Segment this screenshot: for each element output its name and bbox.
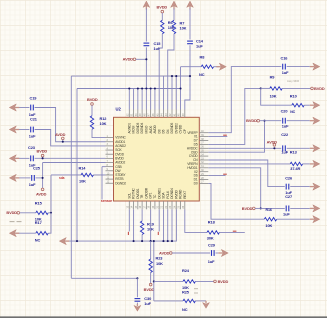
wire top pin 2 to bus2 [133,89,135,110]
wire R24 to BVDD port [195,280,213,282]
svg-text:10K: 10K [79,178,86,183]
wire C19 left lead [16,107,29,109]
wire DGND1 down [158,209,160,231]
power port AVDD (below C25) [36,188,47,196]
wire to R25 [154,300,183,302]
wire AVDD to C29 [172,252,210,254]
wire AVDD stub [136,58,147,60]
resistor R8 [201,65,213,68]
wire C23 right lead to BVDD pin [35,157,106,159]
gray marks near R25 [194,289,198,293]
junction bottom pin 9/bus [162,240,164,242]
off-page connector (right) R18 [310,216,320,223]
wire R10 to arrow [304,104,310,106]
junction bus2 [141,87,143,89]
wire arrow to C14 [189,9,191,40]
resistor 30K [207,231,219,234]
wire R8 vertical to pin CVDD [180,67,182,110]
power port AVDD (C29) [159,251,172,256]
wire SCL down [128,209,130,231]
off-page connector (right) C29 [218,249,228,256]
svg-text:1uF: 1uF [196,43,203,48]
off-page connector (right) C27 [310,205,320,212]
capacitor C29 [212,250,215,256]
resistor R9 [270,87,282,90]
wire BVDD to R6 [161,13,163,20]
wire R25 to ground [195,300,206,302]
wire bus down to R24/R25 chain [153,241,155,301]
wire CSB stub [102,166,106,168]
wire C30 row [71,277,137,279]
svg-text:10K: 10K [100,121,107,126]
wire to R9 [261,87,270,89]
capacitor C14 [187,41,193,44]
wire R15 to node [48,212,51,214]
svg-text:1uF: 1uF [144,301,151,306]
svg-text:R23: R23 [156,256,164,261]
power port AVDD (C15 chain) [123,57,136,62]
junction GP1/bus [150,240,152,242]
wire X1 stub [208,136,227,138]
junction C30 [136,277,138,279]
svg-text:R18: R18 [208,220,216,225]
wire BVDD to C20 [260,120,282,122]
wire R9 to BVDD port [282,87,311,89]
capacitor C19 [31,105,34,111]
wire BVDD to R15 [20,212,36,214]
wire REXT down to 30K row [185,209,207,232]
svg-text:BVDD: BVDD [218,279,229,284]
wire top pin 9 to bus1 [162,76,164,109]
wire CSB down to sensor [101,167,103,200]
power port BVDD (R12) [87,97,98,105]
junction R19/bus [141,240,143,242]
svg-text:R16: R16 [266,208,272,212]
wire C21 right lead to AGND2 pin [35,130,106,146]
junction bus2 [150,87,152,89]
svg-text:AVDD: AVDD [36,191,47,196]
power port BVDD (R24) [214,279,229,284]
no-connect tick D6 [223,173,227,175]
junction C27/BVDD [260,207,262,209]
off-page connector (left) C19 [9,104,19,111]
wire C22 to arrow [287,147,310,149]
wire C19 right lead to AVDD1 pin [35,108,106,142]
power port BVDD (R15) [6,210,19,215]
junction bottom pin 11/bus [171,240,173,242]
wire top pin 12 to bus1 [175,76,177,109]
off-page connector (right) C16 [310,63,320,70]
resistor R23 [149,259,152,273]
wire bottom pin 10 to bus [167,209,169,241]
svg-text:R13: R13 [290,150,298,155]
capacitor C22 [283,145,286,151]
wire C15 to MISO pin [145,47,147,109]
off-page connector (right) C20 [310,117,320,124]
svg-text:R17: R17 [35,220,42,225]
window bottom border [0,316,327,318]
resistor R17 [36,232,48,235]
junction C20/BVDD [263,120,265,122]
wire D0 down to R18 row [208,183,264,219]
svg-text:BVDD: BVDD [242,206,253,211]
junction R8/bus2 [179,87,181,89]
svg-text:C16: C16 [281,56,289,61]
no-connect tick SCL [127,232,129,235]
wire R14 to STDBY pin [93,174,105,176]
wire to R24 [154,280,183,282]
wire top pin 7 to bus2 [154,89,156,110]
svg-text:sda: sda [59,176,65,180]
junction R9/R10 [260,87,262,89]
junction R15/R17 node [50,212,52,214]
IC pin names bottom (rotated) [127,187,187,199]
IC pin stubs left [106,138,114,184]
junction AVDD/C15 [145,58,147,60]
resistor R19 [140,221,143,235]
junction C22/AVDD [273,147,275,149]
IC pin names right [187,131,199,186]
off-page connector (left) bottom bus [59,238,69,245]
no-connect tick 30K row [233,230,237,232]
wire R7 down to pin D4 [168,34,174,110]
svg-text:R15: R15 [35,200,43,205]
wire HVDD1 down to C27 row [208,168,260,209]
ground (C30) [134,304,141,311]
wire arrow to C15 [145,9,147,42]
wire D5 up to R9 row [208,88,260,144]
IC pin numbers bottom (rotated) [126,205,185,208]
svg-text:BVDD: BVDD [156,5,167,10]
junction bus2 [128,87,130,89]
no-connect tick DGND1 [157,232,159,235]
wire bus1 horizontal y=76 [71,75,190,77]
svg-text:R24: R24 [182,268,190,273]
power port AVDD (C22) [267,139,278,146]
svg-text:AVDD: AVDD [159,251,170,256]
IC pin numbers right [201,130,204,184]
svg-text:10K: 10K [265,223,272,228]
svg-text:30K: 30K [207,236,214,241]
svg-text:1uF: 1uF [281,149,288,154]
off-page connector (left) R17 NC [9,230,19,237]
wire BVDD to junction [255,207,261,209]
capacitor C23 [31,155,34,161]
power port BVDD (C27) [242,206,255,211]
wire bus1 vertical x=71.3 [70,76,72,278]
wire top pin 1 to bus2 [128,89,130,110]
svg-text:1uF: 1uF [154,46,161,51]
wire VREFP to C16 [208,67,281,133]
resistor R7 [172,20,175,34]
svg-text:AVDD: AVDD [123,57,134,62]
wire R17 to NC arrow [16,232,36,234]
wire C26 to arrow [290,186,310,188]
wire C30 to ground [136,303,138,306]
svg-text:sensor: sensor [101,199,113,203]
resistor R14 [81,173,93,176]
resistor R6 [161,20,164,34]
wire R8 to arrow [214,66,220,68]
wire C14 down to pin CP [185,45,190,109]
svg-text:C29: C29 [208,242,216,247]
wire R6 to pin D8 [159,34,162,110]
resistor R24 [183,280,195,283]
svg-text:10K: 10K [156,261,163,266]
svg-text:1uF: 1uF [208,259,215,264]
wire BVDD to R12 [91,105,93,116]
IC pin stubs right [199,133,208,184]
off-page connector (right) R10 [310,102,320,109]
wire bottom pin 11 to bus [171,209,173,241]
junction C25 node [42,177,44,179]
svg-text:C20: C20 [281,108,288,113]
op-amp U2 body (main IC) [114,117,200,201]
wire C29 to arrow [216,252,219,254]
svg-text:C27: C27 [285,194,292,199]
off-page connector (right) 37.4R [310,160,320,167]
power arrow (up) C15 chain [143,1,150,10]
IC pin numbers top (rotated) [126,113,185,116]
junction chain/bus [153,240,155,242]
wire C27 to arrow [290,207,310,209]
junction AVDD1 node [62,141,64,143]
svg-text:BVDD: BVDD [36,149,47,154]
IC pin stubs top [129,110,185,118]
IC pin names top (rotated) [127,123,187,134]
wire top pin 3 to bus2 [137,89,139,110]
wire junction to C27 [261,207,285,209]
wire R18 to arrow [277,218,310,220]
svg-text:1uF: 1uF [29,182,36,187]
junction R24 node [153,280,155,282]
off-page connector (right) C26 [310,183,320,190]
wire C25 left lead [16,177,30,179]
wire node down to R17 [48,213,51,233]
ground (R25) [203,301,210,308]
svg-text:1uF: 1uF [282,124,289,129]
resistor R18 10K [264,218,276,221]
capacitor C15 [143,43,149,46]
capacitor C20 [283,118,286,124]
wire R23 to BVDD port [150,273,152,284]
wire D6 stub [208,175,225,177]
wire VREFN to series resistor [208,163,290,165]
svg-text:1uF: 1uF [283,211,290,216]
power port BVDD (C23) [36,149,47,157]
wire bus down to R23 [150,241,152,259]
wire bus2 vertical x=77 [76,89,78,242]
svg-text:AVDD: AVDD [55,132,66,137]
power port BVDD (R9) [311,86,325,91]
wire bottom bus to RGND pin [66,209,176,241]
power port BVDD (R6) [156,5,167,13]
svg-text:BVDD: BVDD [246,118,257,123]
wire 37.4R to arrow [303,163,310,165]
wire C25 right lead [36,177,43,179]
off-page connector (left) C25 [9,174,19,181]
wire 30K row end [219,231,244,233]
junction bus1 [175,75,177,77]
wire bus2 horizontal y=88.5 [77,88,181,90]
capacitor C26 [286,184,289,190]
off-page connector (right) C22 [310,145,320,152]
wire vertical R14 to R15 node [50,175,52,213]
svg-text:BVDD: BVDD [314,86,325,91]
svg-text:BVDD: BVDD [6,210,17,215]
svg-text:REXT: REXT [183,191,187,199]
wire R19 to bus [141,235,143,242]
svg-text:C26: C26 [285,175,293,180]
junction bus2 [137,87,139,89]
svg-text:C19: C19 [30,95,38,100]
off-page connector (left) C23 [9,155,19,162]
wire bottom pin 9 to bus [162,209,164,241]
wire BVDD stem C23 [42,157,44,159]
capacitor C25 [32,175,35,181]
svg-text:10K: 10K [180,25,187,30]
svg-text:U2: U2 [116,107,122,112]
svg-text:D0: D0 [194,182,198,186]
wire vertical AVDD2/C25/AVDD port [42,163,44,189]
svg-text:1uF: 1uF [29,133,36,138]
wire R14 left lead [51,174,81,176]
svg-text:DGND2: DGND2 [115,181,126,185]
wire AVDD2 pin row [43,162,106,164]
wire R8 row left segment [181,66,202,68]
IC pin numbers left [107,135,110,184]
power port BVDD (C20) [246,118,259,123]
wire top pin 6 to bus2 [150,89,152,110]
wire GP1 to bus [150,209,152,241]
svg-text:CP: CP [183,129,187,133]
svg-text:37.4R: 37.4R [290,166,300,171]
junction C14/bus1 [189,75,191,77]
wire junction down to R10 row [261,88,292,105]
capacitor C21 [31,127,34,133]
junction C23/BVDD [42,157,44,159]
junction bus2 vertical/bottom bus [76,240,78,242]
junction RSTNC/bus [133,240,135,242]
wire C23 left lead [16,157,29,159]
wire pin OSD up to C20 row [208,121,264,153]
svg-text:1uF: 1uF [282,70,289,75]
IC pin names left [115,136,126,186]
resistor R15 [36,211,48,214]
junction bottom pin 10/bus [167,240,169,242]
svg-text:NC: NC [35,238,41,243]
wire C21 left lead [16,129,29,131]
wire top pin 11 to bus1 [171,76,173,109]
svg-text:C25: C25 [33,166,41,171]
wire down to C30 [136,278,138,297]
svg-text:C23: C23 [28,145,36,150]
resistor R10 [292,104,304,107]
svg-text:BVDD: BVDD [87,97,98,102]
wire CN down to C26 row [208,160,284,187]
capacitor C30 [135,299,141,302]
svg-text:NC: NC [199,72,205,77]
wire R12 to VSYNC pin [92,129,106,137]
power arrow (up) R7 chain [171,1,178,10]
wire TR to R19 [141,209,143,221]
wire HVDDC to C22 row [208,147,281,149]
wire top pin 4 to bus2 [141,89,143,110]
wire RSTNC to bus [133,209,135,241]
svg-text:R10: R10 [290,94,297,99]
svg-text:BVDD: BVDD [144,287,155,292]
junction bus2 [145,87,147,89]
gray dashes (faded text) [10,221,22,223]
resistor 37.4R [290,162,302,165]
wire arrow to R7 [173,9,175,21]
svg-text:NC: NC [182,307,188,312]
off-page connector (right) R8 [216,63,226,70]
power arrow (up) C14 chain [187,1,194,10]
svg-text:C21: C21 [30,116,38,121]
resistor R12 [90,116,93,130]
svg-text:C22: C22 [281,132,289,137]
off-page connector (left) C21 [9,126,19,133]
svg-text:R14: R14 [79,166,87,171]
wire C16 to arrow [287,66,310,68]
svg-text:R25: R25 [182,289,190,294]
junction bus1 [171,75,173,77]
svg-text:AVDD: AVDD [267,139,278,144]
capacitor C27 [286,206,289,212]
wire C20 to arrow [287,120,310,122]
IC pin stubs bottom [129,201,185,209]
svg-text:Assy 9606: Assy 9606 [287,79,300,83]
no-connect tick X1 [223,134,227,136]
resistor R25 [183,299,195,302]
power port BVDD (R23) [144,283,155,291]
power port AVDD (near C19 chain) [55,132,66,140]
svg-text:NC: NC [290,110,295,114]
svg-text:10K: 10K [270,94,277,99]
wire AVDD port stem [62,140,64,142]
capacitor C16 [283,64,286,70]
junction bus2 [154,87,156,89]
